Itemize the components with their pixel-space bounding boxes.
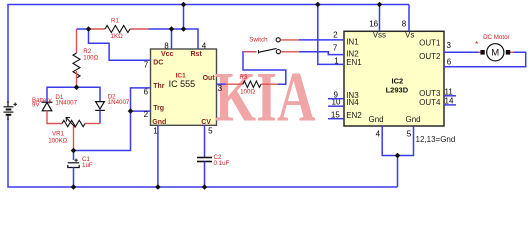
svg-text:Switch: Switch [249, 37, 268, 44]
svg-text:16: 16 [369, 19, 378, 28]
wire: top power rail [8, 5, 409, 104]
svg-text:3: 3 [447, 41, 452, 50]
svg-text:OUT1: OUT1 [419, 38, 441, 47]
svg-text:0.1uF: 0.1uF [214, 160, 230, 167]
svg-text:IN1: IN1 [346, 38, 359, 47]
junction L293D gnd tie [395, 153, 401, 159]
wire: 555 gnd pin1 to rail [157, 125, 159, 187]
svg-text:Rst: Rst [191, 51, 203, 58]
svg-text:1KΩ: 1KΩ [111, 33, 124, 40]
diode D1 1N4007 [42, 102, 53, 111]
svg-text:CV: CV [201, 119, 211, 126]
wire: node down to R2 [76, 29, 78, 53]
svg-text:100KΩ: 100KΩ [48, 137, 67, 144]
wire: diode top rail [47, 87, 100, 101]
svg-text:2: 2 [333, 31, 338, 40]
resistor R1 1KΩ [89, 28, 106, 30]
wire: OUT3 stub pin11 [444, 95, 456, 97]
svg-text:1N4007: 1N4007 [55, 100, 77, 107]
svg-text:100Ω: 100Ω [83, 55, 98, 62]
junction node R1/R2/pin7 [86, 26, 92, 32]
svg-text:Trg: Trg [153, 105, 164, 112]
wire: R1 right to Rst pin4 [149, 29, 199, 49]
wire: L293D gnd pins 4,5 to rail [382, 126, 413, 156]
IC U1 555 timer body [151, 49, 217, 125]
wire: switch lower to IN2 [281, 51, 299, 53]
svg-text:OUT2: OUT2 [419, 52, 441, 61]
svg-text:R1: R1 [111, 17, 119, 24]
wire: wiper node right to trigger riser [74, 111, 131, 150]
svg-text:Vcc: Vcc [161, 51, 174, 58]
svg-text:2: 2 [144, 110, 149, 119]
wire: switch upper to IN1 [280, 39, 299, 41]
junction C2 at ground rail [202, 184, 208, 190]
svg-text:Vss: Vss [373, 31, 386, 40]
wire: threshold pin6 [131, 88, 151, 111]
capacitor C1 1uF polarized [68, 159, 79, 168]
diode D2 1N4007 [95, 102, 105, 111]
svg-text:1: 1 [334, 57, 339, 66]
wire: discharge pin7 route [89, 29, 151, 60]
svg-text:100Ω: 100Ω [240, 89, 255, 96]
svg-text:Out: Out [203, 75, 216, 82]
wire: OUT4 stub pin14 [444, 104, 456, 106]
junction on top rail at R1 riser [181, 2, 187, 8]
svg-text:4: 4 [202, 42, 207, 51]
wire: D1 to VR1 left [47, 111, 62, 124]
svg-text:IC 555: IC 555 [169, 79, 196, 89]
svg-text:5: 5 [407, 129, 412, 138]
wire: C2 to rail [204, 162, 206, 188]
svg-text:Gnd: Gnd [369, 115, 384, 124]
svg-text:1uF: 1uF [82, 162, 93, 169]
svg-text:1N4007: 1N4007 [108, 99, 130, 106]
svg-text:EN1: EN1 [346, 58, 362, 67]
svg-text:DC: DC [153, 60, 163, 67]
svg-text:EN2: EN2 [346, 111, 362, 120]
svg-text:DC Motor: DC Motor [483, 34, 509, 41]
svg-text:IC2: IC2 [392, 77, 404, 86]
svg-text:12,13=Gnd: 12,13=Gnd [416, 135, 456, 144]
svg-text:3: 3 [218, 84, 223, 93]
svg-text:8: 8 [402, 19, 407, 28]
wire: IN4 stub pin10 [328, 105, 344, 107]
junction on top rail at EN1 drop [315, 2, 321, 8]
junction Thr/Trg node [128, 108, 134, 114]
wire: out loop to switch pole [243, 52, 286, 84]
svg-text:M: M [491, 48, 499, 59]
svg-text:9V: 9V [32, 102, 40, 109]
junction on top rail at Vss drop [377, 2, 383, 8]
wire: R2 top link [77, 28, 89, 30]
svg-text:6: 6 [447, 58, 452, 67]
svg-text:6: 6 [144, 88, 149, 97]
svg-text:Vs: Vs [405, 31, 414, 40]
junction R2 bottom / diode rail [74, 85, 80, 91]
wire: OUT1 to motor left [444, 51, 479, 53]
svg-text:L293D: L293D [386, 86, 409, 95]
wire: rail drop to R1 node [183, 5, 185, 30]
wire: C1 to ground rail [73, 167, 75, 187]
wire: rail end to Vs pin8 [408, 5, 410, 32]
potentiometer VR1 100KΩ [85, 123, 100, 125]
junction at Vcc pin8 drop [169, 26, 175, 32]
svg-text:OUT4: OUT4 [419, 98, 441, 107]
wire: wiper node down to C1 [73, 151, 75, 161]
junction 555 pin1 at ground rail [155, 184, 161, 190]
wire: 555 CV pin5 to C2 [204, 125, 206, 157]
svg-text:4: 4 [376, 129, 381, 138]
svg-text:Gnd: Gnd [152, 119, 166, 126]
capacitor C2 0.1uF [197, 158, 212, 162]
IC U2 L293D body [344, 31, 444, 126]
svg-text:OUT3: OUT3 [419, 89, 441, 98]
wire: trigger pin2 [131, 110, 151, 112]
wire: out pin3 stub [217, 83, 226, 85]
svg-text:8: 8 [164, 42, 169, 51]
resistor R3 100Ω [243, 81, 261, 87]
wire: EN2 stub pin15 [328, 118, 344, 120]
svg-text:R3: R3 [239, 74, 247, 81]
svg-text:5: 5 [208, 126, 213, 135]
wire: rail to EN1 [318, 5, 344, 65]
wire: D2 to VR1 right [99, 110, 101, 123]
resistor R2 100Ω [73, 53, 80, 78]
battery BT 9V [4, 101, 18, 120]
svg-text:Thr: Thr [153, 83, 165, 90]
junction wiper/C1 node [71, 148, 77, 154]
svg-text:7: 7 [144, 61, 149, 70]
wire: bottom ground rail [8, 118, 398, 187]
wire: Vcc pin8 drop [171, 29, 173, 49]
wire: rail to Vss pin16 [379, 5, 381, 32]
junction C1 at ground rail [71, 184, 77, 190]
wire: IN3 stub pin9 [328, 98, 344, 100]
wire: OUT2 loop to motor right [444, 52, 526, 67]
svg-text:Gnd: Gnd [406, 115, 421, 124]
junction at rail riser on R1 row [181, 26, 187, 32]
svg-text:VR1: VR1 [52, 130, 65, 137]
svg-text:7: 7 [333, 44, 338, 53]
wire: VR1 wiper down [73, 126, 75, 151]
svg-text:IN4: IN4 [346, 98, 359, 107]
